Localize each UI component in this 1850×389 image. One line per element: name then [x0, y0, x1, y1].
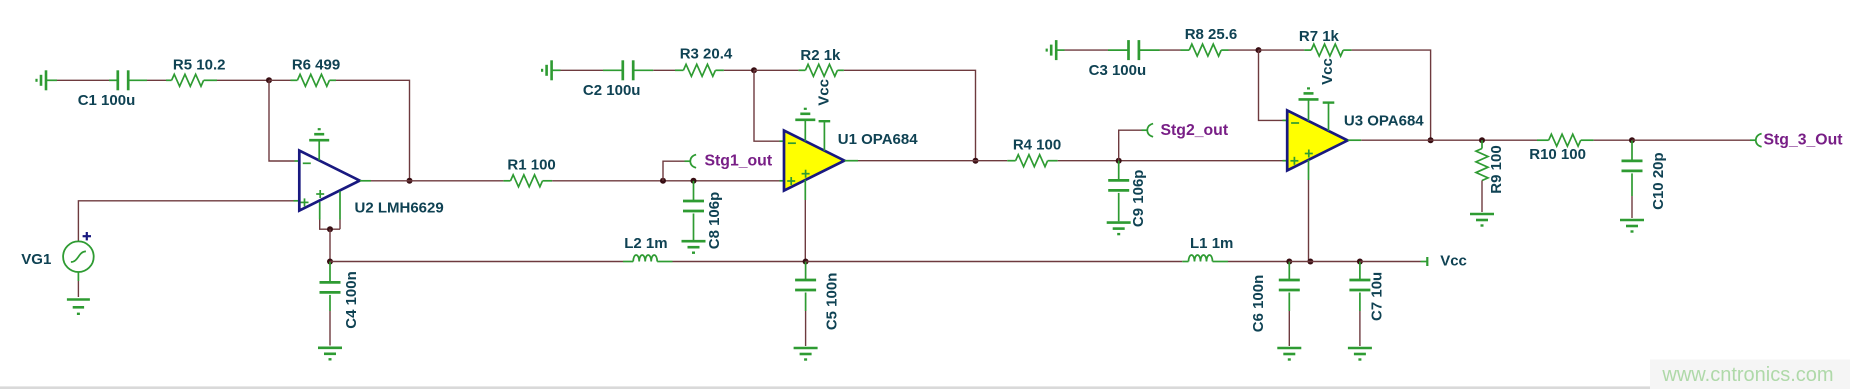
svg-text:Stg2_out: Stg2_out [1161, 122, 1229, 139]
U2 inverting marker [303, 162, 311, 164]
wire rail left segment [330, 261, 623, 263]
resistor R7 [1304, 44, 1351, 56]
node B junction [751, 67, 757, 73]
ground (C4) [318, 348, 342, 360]
wire L1 to C6 node [1228, 261, 1289, 263]
wire ground to C1 [57, 79, 109, 81]
svg-text:R5 10.2: R5 10.2 [173, 57, 226, 74]
junction C7 node [1357, 259, 1363, 265]
capacitor C10 [1622, 140, 1643, 218]
op-amp U3 [1287, 110, 1347, 170]
resistor R5 [166, 74, 217, 86]
svg-text:www.cntronics.com: www.cntronics.com [1661, 364, 1833, 386]
wire ground to C2 [561, 69, 604, 71]
ground (C1 input) [37, 70, 58, 90]
U1 output pin [845, 160, 858, 162]
junction C6 node [1286, 259, 1292, 265]
svg-text:Vcc: Vcc [1319, 58, 1336, 85]
label R3 20.4 [680, 46, 733, 63]
svg-text:U3 OPA684: U3 OPA684 [1344, 113, 1424, 130]
label C8 106p [706, 192, 723, 250]
label R9 100 [1488, 145, 1505, 193]
U2 input plus marker [301, 198, 309, 206]
label VG1 [21, 251, 51, 268]
ground (VG1) [67, 300, 90, 314]
capacitor C8 [683, 181, 704, 240]
svg-text:C6 100n: C6 100n [1250, 275, 1267, 333]
junction U3 power node [1307, 259, 1313, 265]
ground (U3 top) [1299, 88, 1319, 99]
capacitor C7 [1349, 262, 1370, 347]
ground (C9) [1107, 223, 1131, 235]
label U1 OPA684 [838, 131, 918, 148]
svg-text:R2 1k: R2 1k [800, 47, 841, 64]
U2 output pin [360, 180, 371, 182]
label C1 100u [78, 92, 136, 109]
wire R1 to U1 noninverting input [552, 180, 783, 182]
svg-text:U1 OPA684: U1 OPA684 [838, 131, 918, 148]
label C6 100n [1250, 275, 1267, 333]
capacitor C2 [603, 60, 653, 80]
svg-text:Vcc: Vcc [1440, 252, 1467, 269]
wire C7 node to Vcc terminal [1360, 261, 1421, 263]
U3 input plus marker [1290, 157, 1298, 165]
label Vcc (U1) [816, 79, 833, 106]
U3 Vcc pin [1323, 103, 1335, 131]
junction C5 node [803, 259, 809, 265]
svg-text:C5 100n: C5 100n [824, 273, 841, 331]
wire R4 to U3 noninverting input [1058, 160, 1287, 162]
label R4 100 [1013, 137, 1061, 154]
svg-text:Vcc: Vcc [816, 79, 833, 106]
label net Stg2_out [1161, 122, 1229, 139]
ground (R9) [1470, 214, 1494, 226]
junction U2 output node [407, 178, 413, 184]
resistor R9 [1476, 140, 1488, 212]
svg-text:C2 100u: C2 100u [583, 82, 641, 99]
svg-text:R7 1k: R7 1k [1299, 28, 1340, 45]
svg-text:R1 100: R1 100 [507, 157, 555, 174]
U2 top power pin [318, 140, 320, 160]
label U2 LMH6629 [355, 199, 444, 216]
U1 input plus marker [787, 177, 795, 185]
junction U3 output node [1428, 137, 1434, 143]
U2 bottom power pins [320, 191, 340, 229]
connector Stg2_out [1147, 124, 1153, 137]
label R5 10.2 [173, 57, 226, 74]
resistor R10 [1537, 134, 1594, 146]
svg-text:VG1: VG1 [21, 251, 51, 268]
wire L2 to C5 node [673, 261, 806, 263]
wire U1 output to R4 [858, 160, 1007, 162]
resistor R3 [675, 64, 724, 76]
svg-text:C9 106p: C9 106p [1130, 170, 1147, 228]
svg-text:C4 100n: C4 100n [343, 271, 360, 329]
wire R5 to node A [217, 79, 269, 81]
ground (C7) [1348, 348, 1372, 360]
wire Stg2_out tap [1119, 130, 1147, 161]
capacitor C1 [109, 70, 147, 90]
wire VG1 to ground [77, 272, 79, 297]
wire R2 to U1 output node (feedback) [844, 70, 976, 160]
label R6 499 [292, 57, 340, 74]
op-amp U2 [299, 151, 359, 211]
wire C3 to R8 [1160, 49, 1181, 51]
capacitor C5 [795, 262, 816, 347]
wire R3 to node B [724, 69, 754, 71]
node A junction [266, 77, 272, 83]
label R7 1k [1299, 28, 1340, 45]
wire Stg1_out tap [663, 161, 690, 181]
wire node B to R2 [754, 69, 798, 71]
svg-text:C10 20p: C10 20p [1650, 152, 1667, 210]
label net Stg_3_Out [1764, 132, 1844, 149]
label C9 106p [1130, 170, 1147, 228]
resistor R1 [503, 175, 552, 187]
U1 inverting marker [788, 142, 796, 144]
capacitor C3 [1108, 40, 1160, 60]
node C junction [1256, 47, 1262, 53]
U3 top ground pin [1308, 99, 1310, 121]
label C2 100u [583, 82, 641, 99]
wire C6 node to C7 node [1289, 261, 1360, 263]
voltage source VG1 [63, 232, 94, 272]
wire R8 to node C [1229, 49, 1259, 51]
wire R10 to C10 node [1594, 139, 1632, 141]
wire C1 to R5 [147, 79, 166, 81]
connector Stg1_out [690, 155, 696, 168]
watermark panel [1650, 360, 1850, 389]
wire node C to U3 inverting input [1259, 50, 1287, 120]
op-amp U1 [784, 131, 844, 191]
wire U2 power to rail [329, 229, 331, 261]
wire node B to U1 inverting input [754, 70, 784, 141]
label net Vcc [1440, 252, 1467, 269]
label R2 1k [800, 47, 841, 64]
svg-text:R10 100: R10 100 [1529, 146, 1586, 163]
junction U1 output node [973, 158, 979, 164]
label C7 10u [1369, 272, 1386, 321]
svg-text:R6 499: R6 499 [292, 57, 340, 74]
U3 bottom power pin [1308, 160, 1310, 262]
svg-text:R4 100: R4 100 [1013, 137, 1061, 154]
wire node A to U2 inverting input [269, 80, 299, 161]
U1 Vcc pin [819, 121, 831, 151]
wire node C to R7 [1259, 49, 1305, 51]
svg-text:Stg_3_Out: Stg_3_Out [1764, 132, 1844, 149]
svg-text:U2 LMH6629: U2 LMH6629 [355, 199, 444, 216]
ground (C6) [1277, 348, 1301, 360]
ground (U1 top) [795, 109, 815, 120]
label C4 100n [343, 271, 360, 329]
junction Stg2 tap / C9 node [1116, 158, 1122, 164]
capacitor C6 [1279, 262, 1300, 347]
label L2 1m [624, 235, 667, 252]
svg-text:R9 100: R9 100 [1488, 145, 1505, 193]
ground (C10) [1620, 220, 1644, 232]
U3 supply plus marker [1305, 150, 1313, 158]
svg-text:Stg1_out: Stg1_out [705, 153, 773, 170]
label R8 25.6 [1185, 26, 1238, 43]
svg-text:L2 1m: L2 1m [624, 235, 667, 252]
label C3 100u [1089, 62, 1147, 79]
label U3 OPA684 [1344, 113, 1424, 130]
U3 inverting marker [1291, 122, 1299, 124]
resistor R4 [1007, 155, 1057, 167]
label C10 20p [1650, 152, 1667, 210]
wire R6 to U2 output node (feedback) [336, 80, 410, 181]
label R1 100 [507, 157, 555, 174]
capacitor C9 [1108, 161, 1129, 222]
svg-text:C7 10u: C7 10u [1369, 272, 1386, 321]
wire C10 node to Stg_3_Out [1632, 139, 1756, 141]
junction rail start [327, 259, 333, 265]
capacitor C4 [320, 262, 341, 346]
U1 supply plus marker [802, 170, 810, 178]
junction Stg1 tap [660, 178, 666, 184]
inductor L1 [1182, 255, 1228, 262]
junction C8 node [691, 178, 697, 184]
resistor R8 [1181, 44, 1229, 56]
U3 output pin [1348, 139, 1362, 141]
label C5 100n [824, 273, 841, 331]
ground (C3 input) [1047, 40, 1065, 60]
ground (U2 top) [309, 129, 329, 140]
svg-text:C1 100u: C1 100u [78, 92, 136, 109]
wire ground to C3 [1065, 49, 1109, 51]
svg-text:R3 20.4: R3 20.4 [680, 46, 733, 63]
wire R7 to U3 output node (feedback) [1352, 50, 1431, 140]
U1 bottom power pin [804, 180, 806, 262]
connector Stg_3_Out [1756, 134, 1762, 147]
svg-text:C3 100u: C3 100u [1089, 62, 1147, 79]
wire C5 node to L1 [806, 261, 1183, 263]
label L1 1m [1190, 235, 1233, 252]
resistor R2 [798, 64, 844, 76]
junction C10 node [1629, 137, 1635, 143]
label net Stg1_out [705, 153, 773, 170]
svg-text:C8 106p: C8 106p [706, 192, 723, 250]
terminal Vcc [1421, 257, 1428, 266]
svg-text:L1 1m: L1 1m [1190, 235, 1233, 252]
junction U2 power join [327, 226, 333, 232]
ground (C8) [682, 241, 706, 253]
inductor L2 [623, 255, 673, 262]
svg-text:R8 25.6: R8 25.6 [1185, 26, 1238, 43]
U1 top ground pin [804, 120, 806, 142]
wire VG1 to U2 noninverting input [78, 201, 298, 241]
resistor R6 [291, 74, 337, 86]
label Vcc (U3) [1319, 58, 1336, 85]
wire node A to R6 [269, 79, 291, 81]
wire U3 output to R10 [1361, 139, 1537, 141]
wire C2 to R3 [653, 69, 675, 71]
ground (C2 input) [542, 60, 560, 80]
label R10 100 [1529, 146, 1586, 163]
U2 supply plus marker [316, 190, 324, 198]
bottom border line [0, 386, 1850, 389]
ground (C5) [794, 348, 818, 360]
junction R9 node [1479, 137, 1485, 143]
wire U2 output to R1 [371, 180, 503, 182]
